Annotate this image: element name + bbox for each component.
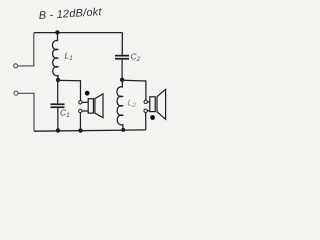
node woofer bottom	[78, 128, 82, 132]
wire junction to tweeter	[122, 80, 146, 100]
speaker woofer	[82, 94, 103, 118]
wire L1 junction to woofer	[58, 80, 81, 100]
node top of L1	[55, 30, 59, 34]
tweeter polarity dot	[150, 115, 155, 120]
inductor L2	[117, 80, 123, 130]
node C2/L2/tweeter junction	[120, 78, 124, 82]
input terminal top	[14, 64, 18, 68]
woofer terminal +	[79, 101, 82, 104]
speaker tweeter	[147, 89, 165, 119]
input terminal bottom	[14, 91, 18, 95]
node C1 bottom	[56, 128, 60, 132]
wire C1 to bottom rail	[57, 108, 59, 130]
woofer terminal -	[79, 109, 82, 112]
capacitor C1	[51, 103, 65, 105]
inductor L1	[52, 33, 58, 80]
woofer polarity dot	[85, 91, 90, 96]
wire tweeter to bottom rail	[145, 113, 147, 130]
wire top rail	[34, 32, 123, 34]
wire top rail to C2	[121, 33, 123, 55]
capacitor C2	[115, 55, 129, 57]
node L2 bottom	[121, 128, 125, 132]
wire C2 to junction	[121, 60, 123, 80]
wire input top to rail	[18, 33, 34, 66]
wire junction to C1	[57, 80, 59, 103]
tweeter terminal -	[144, 109, 147, 112]
wire input bottom to bottom rail	[18, 93, 34, 131]
wire woofer to bottom rail	[79, 113, 81, 131]
node L1/C1/woofer junction	[56, 78, 60, 82]
wire bottom rail	[34, 130, 146, 131]
tweeter terminal +	[144, 100, 147, 103]
